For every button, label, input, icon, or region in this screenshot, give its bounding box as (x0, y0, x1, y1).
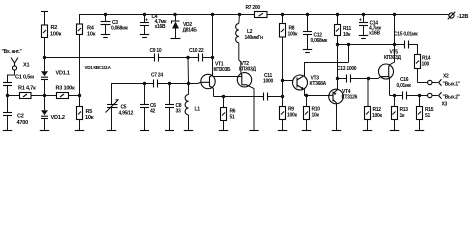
wire: VT4 collector to ground (336, 103, 338, 130)
svg-text:+: + (359, 18, 362, 24)
transistor VT4 KT3126 PNP (329, 89, 358, 104)
wire: oscillator feedback row R11 to C15 (338, 43, 405, 46)
wire: oscillator output node to VT5 gate (369, 77, 381, 79)
wire: row A from varicap node to VT1 drain column (43, 56, 213, 59)
capacitor C6 42 (140, 84, 156, 131)
svg-text:100к: 100к (50, 32, 62, 38)
capacitor C10 22 (189, 48, 204, 62)
svg-text:Д814Б: Д814Б (183, 27, 198, 33)
svg-text:100: 100 (422, 62, 430, 68)
resistor R8 100k (280, 15, 298, 38)
zener diode VD2 D814B (172, 15, 198, 39)
svg-text:1000: 1000 (263, 79, 273, 85)
ground under C14 (359, 36, 368, 39)
svg-text:100к: 100к (287, 113, 297, 119)
svg-text:0,068мк: 0,068мк (111, 26, 128, 32)
varicap VD1.1 of VD1 KVS111A (41, 58, 70, 96)
capacitor C2 4700 (3, 96, 28, 131)
transistor VT2 KP303D JFET (237, 61, 256, 87)
resistor R13 1k (392, 96, 409, 131)
svg-text:"Вых.2": "Вых.2" (443, 95, 461, 101)
ground under C4 (140, 35, 149, 38)
resistor R14 100 (415, 55, 431, 83)
inductor L1 (185, 84, 200, 131)
resistor R1 4.7k (18, 86, 36, 99)
inductor L2 140uH (236, 15, 263, 73)
svg-text:C15 0,01мк: C15 0,01мк (394, 32, 418, 38)
ground under C12 (303, 50, 312, 53)
svg-text:КП303Д: КП303Д (239, 67, 256, 73)
svg-text:"Вх. ант.": "Вх. ант." (2, 49, 23, 55)
svg-text:C9 10: C9 10 (150, 48, 162, 54)
resistor R7 200 in rail (246, 5, 268, 18)
svg-text:X2: X2 (443, 74, 449, 80)
svg-text:C2: C2 (17, 114, 24, 120)
resistor R2 100k (42, 25, 62, 38)
connector X2 output 1 (428, 74, 461, 88)
svg-text:C7 24: C7 24 (151, 73, 163, 79)
wire: VT1 source down to source row (213, 89, 215, 97)
svg-text:+: + (145, 18, 148, 24)
svg-text:33: 33 (176, 109, 181, 115)
svg-text:10к: 10к (87, 32, 96, 38)
capacitor C13 (338, 75, 371, 83)
transistor VT3 KT368A NPN (293, 75, 327, 90)
varicap VD1.2 of VD1 KVS111A (41, 96, 65, 131)
resistor R9 100k (280, 97, 298, 131)
wire: source row VT1/VT2 to C11 and VT3 base node (214, 95, 285, 98)
svg-text:0,068мк: 0,068мк (311, 38, 328, 44)
terminal: tuning voltage stub over R2 (41, 12, 48, 26)
svg-text:КП303Б: КП303Б (214, 67, 231, 73)
ground under VD1.2 (40, 130, 49, 132)
connector X1 antenna jack (8, 58, 30, 83)
svg-text:х16В: х16В (369, 31, 380, 37)
wire: output row 1 from R14 (418, 82, 428, 84)
ground under R9 (278, 130, 287, 132)
resistor R12 100k (365, 79, 383, 131)
svg-text:0,01мк: 0,01мк (397, 83, 412, 89)
wire: R2 to varicap node (44, 38, 46, 58)
terminal -12V supply pin (445, 12, 468, 20)
capacitor C15 (405, 41, 418, 55)
ground under R12 (363, 130, 372, 132)
svg-text:140мкГн: 140мкГн (245, 35, 263, 41)
capacitor C12 0.068u (303, 15, 328, 50)
wire: column from feedback row to VT3 collector link (348, 45, 350, 63)
svg-text:10к: 10к (343, 32, 351, 38)
resistor R3 100k (56, 86, 76, 99)
resistor R15 51 (417, 96, 434, 131)
svg-text:C13 1000: C13 1000 (337, 66, 357, 72)
svg-text:"Вых.1": "Вых.1" (443, 81, 461, 87)
capacitor C9 10 (150, 48, 162, 62)
svg-text:1к: 1к (400, 113, 405, 119)
ground under R6 (219, 130, 228, 132)
svg-text:X1: X1 (23, 63, 29, 69)
wire: R4 down to row B (crosses row A) (79, 35, 81, 96)
ground under C2 (3, 130, 12, 132)
svg-text:51: 51 (230, 115, 235, 121)
svg-text:R1 4,7к: R1 4,7к (18, 86, 36, 92)
transistor VT5 KP303D JFET (379, 50, 402, 80)
resistor R10 10k (304, 96, 321, 131)
svg-text:42: 42 (150, 109, 155, 115)
svg-text:VD1.2: VD1.2 (51, 115, 65, 121)
resistor R6 51 (221, 97, 236, 131)
svg-text:-12В: -12В (457, 14, 468, 20)
wire: R8 to VT3 base node column (281, 37, 284, 97)
trimmer capacitor C5 (106, 100, 134, 131)
ground under C5 (107, 130, 116, 132)
svg-text:51: 51 (425, 113, 430, 119)
svg-text:х16В: х16В (155, 24, 166, 30)
ground under C8 (165, 130, 174, 132)
svg-text:4,95/12: 4,95/12 (119, 111, 134, 117)
svg-text:R7 200: R7 200 (246, 5, 261, 11)
svg-text:C10 22: C10 22 (189, 48, 204, 54)
svg-text:VD1.1: VD1.1 (56, 71, 70, 77)
wire: VT2 source down to ground (250, 87, 254, 131)
svg-text:КП303Д: КП303Д (384, 55, 401, 61)
ground under R15 (415, 130, 424, 132)
ground under R13 (390, 130, 399, 132)
wire: R11 down through oscillator row to VT4 emitter (336, 36, 339, 90)
transistor VT1 KP303B JFET (198, 62, 231, 89)
ground under VT4 (332, 130, 341, 132)
wire: row B tuning voltage row (6, 94, 81, 97)
capacitor C1 0.5u (3, 75, 34, 96)
svg-text:10к: 10к (85, 115, 94, 121)
wire: rail to VT1 drain column (212, 15, 214, 74)
svg-text:C1 0,5м: C1 0,5м (15, 75, 34, 81)
svg-text:4700: 4700 (17, 120, 29, 126)
svg-text:L1: L1 (195, 107, 201, 113)
junction dots on -12V rail (104, 13, 396, 16)
resistor R5 10k (77, 96, 94, 131)
capacitor C11 1000 (263, 73, 273, 101)
wire: VT3 emitter to VT4 base (304, 89, 329, 97)
ground under R10 (302, 130, 311, 132)
resistor R11 10k (335, 15, 352, 39)
wire: -12V top rail (80, 15, 446, 25)
capacitor C7 24 (151, 73, 163, 88)
svg-text:100к: 100к (288, 32, 298, 38)
capacitor C16 0.01uk (397, 77, 412, 100)
capacitor C3 0.068u (101, 15, 129, 35)
wire: L1 tap to C9/C10 junction (187, 58, 190, 84)
connector X3 output 2 (428, 92, 461, 107)
ground under R5 (75, 130, 84, 132)
ground under L1 (184, 130, 193, 132)
wire: VT5 source down to output row 2 (389, 78, 391, 95)
capacitor C8 33 (165, 84, 182, 131)
svg-text:10к: 10к (312, 113, 320, 119)
wire: VT1 drain to VT2 gate link (213, 76, 238, 78)
svg-text:КТ368А: КТ368А (310, 81, 327, 87)
wire: output row 2 (390, 94, 438, 97)
ground under VT2 source (249, 130, 258, 132)
svg-text:КТ3126: КТ3126 (342, 95, 358, 101)
svg-text:VD1 КВС111А: VD1 КВС111А (85, 65, 112, 70)
svg-text:X3: X3 (442, 102, 448, 108)
ground under C3 (101, 35, 110, 38)
wire: VT3 collector up and right to oscillator node (304, 63, 349, 76)
ground under C6 (140, 130, 149, 132)
wire: VT3 base lead (283, 80, 294, 82)
wire: rail to VT5 drain column (390, 15, 395, 65)
resistor R4 10k (77, 15, 96, 38)
capacitor C4 4.7u 16V electrolytic (140, 14, 167, 34)
svg-text:100к: 100к (372, 113, 382, 119)
capacitor C14 4.7u 16V electrolytic (359, 15, 381, 37)
svg-text:R2: R2 (51, 25, 58, 31)
wire: row C tank circuit row to VT1 gate (112, 82, 198, 105)
svg-text:R3 100к: R3 100к (56, 86, 76, 92)
ground under VD2 (171, 38, 181, 40)
